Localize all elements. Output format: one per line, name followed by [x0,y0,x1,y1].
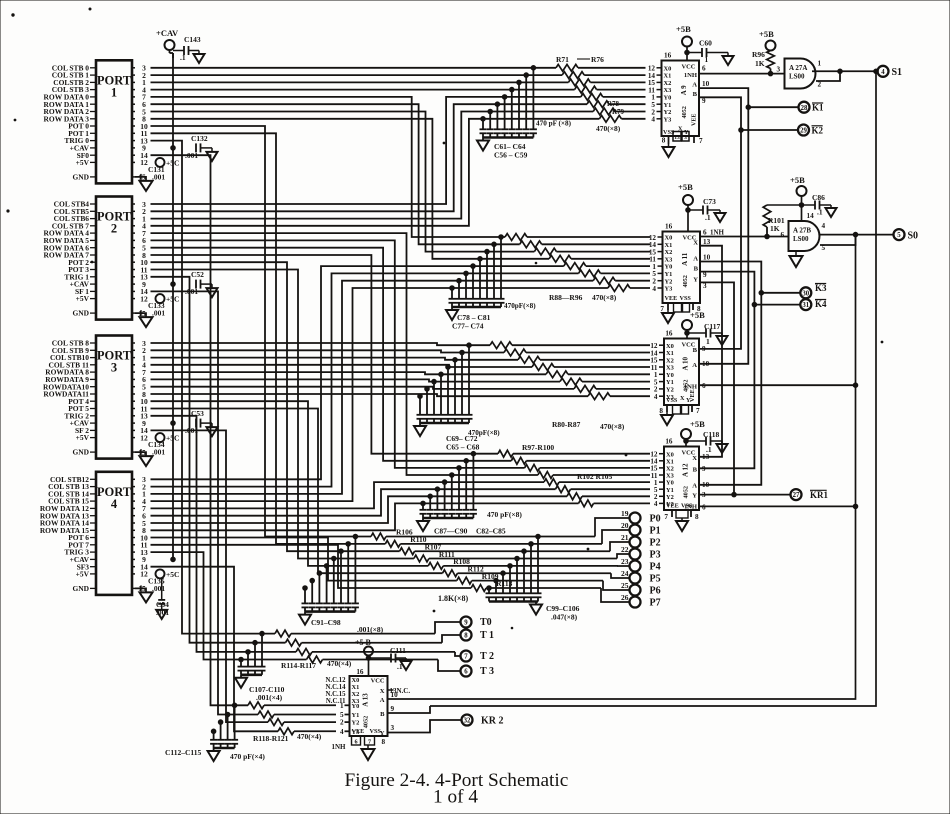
svg-text:KR 2: KR 2 [481,715,504,726]
svg-text:7: 7 [464,654,468,661]
svg-text:C91–C98: C91–C98 [311,618,341,627]
terminal S0 [894,229,919,241]
svg-text:3: 3 [111,361,117,375]
svg-text:Y0: Y0 [666,372,674,379]
svg-text:Y: Y [692,493,697,500]
svg-text:C53: C53 [191,409,204,418]
svg-text:VSS: VSS [680,295,692,302]
wire +CAV rail [171,53,176,562]
svg-text:X: X [680,395,685,402]
scan specks [7,8,883,629]
svg-text:C117: C117 [704,322,721,331]
svg-text:Y1: Y1 [664,102,672,109]
svg-text:1K: 1K [770,224,780,233]
resistor R96 1K [752,29,776,74]
svg-text:+5C: +5C [166,434,179,443]
svg-text:X1: X1 [664,73,672,80]
svg-text:24: 24 [621,569,629,578]
power +5B at A27B [790,175,807,221]
svg-text:6: 6 [702,504,706,512]
svg-text:K1: K1 [812,103,824,113]
svg-text:GND: GND [72,309,89,318]
svg-text:B: B [693,91,698,98]
svg-text:19: 19 [621,509,629,518]
svg-text:C77– C74: C77– C74 [452,322,484,331]
wire A13 B jog [388,706,431,713]
svg-text:3: 3 [684,135,687,141]
svg-text:4: 4 [340,728,344,736]
svg-text:X1: X1 [666,350,674,357]
capacitor C111 [369,646,412,671]
svg-text:4052: 4052 [682,486,689,498]
wire bus PORT2 COL STB risers to A9 Y inputs [151,97,600,226]
svg-text:16: 16 [665,223,673,231]
svg-text:12: 12 [140,158,148,167]
svg-text:R88—R96: R88—R96 [549,293,583,302]
svg-text:14: 14 [807,212,815,220]
terminal S1 [878,66,903,78]
svg-text:N.C.15: N.C.15 [325,691,346,698]
svg-text:7: 7 [664,513,668,521]
svg-text:.001: .001 [156,608,169,617]
power +5C at PORT 2 with capacitor C133 [148,294,179,318]
svg-text:.001: .001 [152,448,165,457]
capacitor C60 [687,39,734,66]
wire A11 A pin to K bus [699,262,764,485]
svg-text:1: 1 [706,337,710,346]
svg-text:+5C: +5C [166,570,179,579]
svg-text:7: 7 [368,739,371,746]
svg-text:1 of 4: 1 of 4 [433,787,478,808]
wire bus PORT3 COL STB to A10 X inputs [151,343,533,367]
svg-text:N.C.14: N.C.14 [325,684,346,691]
wire A27A feedback [816,71,840,81]
svg-text:C111: C111 [390,646,406,655]
svg-text:6: 6 [464,669,468,676]
resistors R97-R100 [498,443,650,478]
svg-text:X0: X0 [352,677,360,684]
wire bus POT lines to P outputs [151,126,472,588]
svg-text:+5C: +5C [166,158,179,167]
svg-text:12: 12 [140,294,148,303]
svg-text:470 pF(×4): 470 pF(×4) [230,752,265,761]
svg-text:21: 21 [621,533,629,542]
svg-text:7: 7 [696,407,700,415]
svg-text:Y: Y [693,276,698,283]
wire A27A output to S1 [812,69,878,74]
svg-text:Y1: Y1 [665,271,673,278]
svg-text:31: 31 [802,302,809,309]
ground at PORT 4 GND pin [135,585,153,602]
svg-text:9: 9 [464,620,468,627]
resistors R118-R121 470(x4) [248,702,350,743]
svg-text:P0: P0 [650,513,661,524]
svg-text:.1: .1 [706,445,712,454]
svg-text:B: B [693,347,698,354]
svg-text:+CAV: +CAV [156,28,179,38]
wire A9 A pin to K bus [699,88,751,364]
svg-text:X2: X2 [664,80,672,87]
wire bus PORT4 COL STB risers to A11 Y inputs [151,266,608,501]
wire P jogs to terminals [595,518,630,602]
wire A9 B pin to K bus [699,97,743,349]
capacitor C132 [185,134,218,161]
svg-text:9: 9 [391,705,395,713]
svg-text:LS00: LS00 [789,73,805,81]
connector PORT 1 [44,60,148,183]
svg-text:P2: P2 [650,537,661,548]
svg-text:10: 10 [702,80,710,88]
ground below A27B [790,251,803,267]
svg-text:R80-R87: R80-R87 [552,420,581,429]
svg-text:Y1: Y1 [666,379,674,386]
capacitor bank C78-C81 C77-C74 470pF(x8) [446,235,505,331]
ground at PORT 3 GND pin [135,449,153,466]
svg-text:32: 32 [464,718,471,725]
A10 bottom pins 8 7 and ground [659,405,700,425]
svg-text:X3: X3 [665,256,673,263]
op-amp IC multiplexer A10 4052 [650,330,709,406]
svg-text:7: 7 [660,305,664,313]
svg-text:470(×8): 470(×8) [596,124,621,133]
svg-text:VCC: VCC [682,64,696,71]
svg-text:VEE: VEE [666,503,679,510]
svg-text:X3: X3 [666,473,674,480]
svg-text:4052: 4052 [363,716,370,728]
svg-text:30: 30 [802,290,809,297]
svg-text:LS00: LS00 [793,235,809,243]
svg-text:16: 16 [356,668,364,676]
svg-text:A: A [692,483,697,490]
resistors R106-R113 1.8K(x8) [371,528,618,603]
svg-text:P5: P5 [650,573,661,584]
svg-text:S1: S1 [892,67,903,78]
svg-text:P4: P4 [650,561,661,572]
wire S1 vertical to A13 B [430,69,878,706]
svg-text:5: 5 [897,232,901,239]
wire T jogs [435,622,461,671]
svg-text:4052: 4052 [682,275,689,287]
svg-text:470(×8): 470(×8) [592,293,617,302]
terminals T0-T3 [461,617,495,678]
svg-text:.047(×8): .047(×8) [551,613,578,622]
svg-text:20: 20 [621,521,629,530]
svg-text:.001(×4): .001(×4) [256,693,283,702]
svg-text:12: 12 [140,570,148,579]
svg-text:Y3: Y3 [664,116,672,123]
svg-text:6: 6 [781,231,785,239]
wire bus TRIG lines to T rows [151,141,307,660]
svg-text:C86: C86 [812,193,825,202]
svg-text:4052: 4052 [681,106,688,118]
ground at PORT 2 GND pin [135,310,153,327]
svg-text:N.C.11: N.C.11 [326,698,346,705]
svg-text:.1: .1 [397,662,403,671]
svg-text:470(×4): 470(×4) [297,732,322,741]
wire bus SF lines to A13 rows [151,155,279,731]
svg-text:10: 10 [391,691,399,699]
resistor R101 1K [763,205,801,239]
svg-text:C112–C115: C112–C115 [165,748,202,757]
svg-text:6: 6 [702,65,706,73]
svg-text:1: 1 [705,55,709,64]
svg-text:.1: .1 [705,213,711,222]
svg-text:Y2: Y2 [666,387,674,394]
svg-text:C118: C118 [703,430,720,439]
svg-text:A 27A: A 27A [789,64,807,72]
power +5B at A13 [355,638,373,676]
svg-text:C87—C90: C87—C90 [434,527,468,536]
wire A11 INH to A27B [700,236,789,238]
svg-text:C56 – C59: C56 – C59 [494,151,528,160]
svg-text:Y2: Y2 [352,720,360,727]
svg-text:T0: T0 [480,617,492,628]
svg-text:16: 16 [665,330,673,338]
svg-text:X1: X1 [666,458,674,465]
svg-text:P1: P1 [650,525,661,536]
wire bus PORT2 ROW DATA drops to A12 X inputs [151,233,538,475]
svg-text:C73: C73 [703,197,716,206]
wire A11 B pin to K bus [699,272,757,469]
svg-text:A: A [692,362,697,369]
svg-text:8: 8 [659,407,663,415]
svg-text:T 2: T 2 [480,651,494,662]
svg-text:3: 3 [391,724,395,732]
svg-text:13: 13 [674,135,680,141]
svg-text:Y2: Y2 [664,109,672,116]
svg-text:+5 B: +5 B [355,638,372,647]
svg-text:VSS: VSS [370,728,382,735]
svg-text:470 pF (×8): 470 pF (×8) [536,120,572,128]
op-amp IC multiplexer A11 4052 [649,223,711,304]
svg-text:1: 1 [818,60,822,68]
svg-text:X3: X3 [666,365,674,372]
svg-text:12: 12 [140,433,148,442]
logic gate A27B LS00 [781,212,826,252]
svg-text:B: B [694,266,699,273]
svg-text:C65 – C68: C65 – C68 [446,443,480,452]
svg-text:R96: R96 [752,50,765,59]
svg-text:.001: .001 [152,584,165,593]
svg-text:1: 1 [111,85,117,99]
svg-text:A 12: A 12 [681,463,689,477]
svg-text:1K: 1K [755,59,765,68]
svg-text:A 9: A 9 [680,85,688,95]
wire A12 INH row [699,505,856,507]
svg-text:2: 2 [111,222,117,236]
capacitor C73 [688,197,726,222]
svg-text:N.C.12: N.C.12 [325,677,346,684]
capacitor C53 [185,409,218,436]
svg-text:4: 4 [652,285,656,293]
svg-text:P7: P7 [650,597,661,608]
terminals P0-P7 [621,509,661,608]
svg-text:Y0: Y0 [352,703,360,710]
svg-text:470pF(×8): 470pF(×8) [504,302,536,310]
svg-text:R78: R78 [607,100,620,108]
svg-text:26: 26 [621,593,629,602]
svg-text:4: 4 [822,222,826,230]
svg-text:A: A [692,82,697,89]
wire bus PORT1 ROW DATA drops to A11 X inputs [151,97,550,259]
svg-text:P6: P6 [650,585,661,596]
svg-text:Y1: Y1 [666,487,674,494]
svg-text:3: 3 [777,66,781,74]
capacitor C86 [802,193,837,217]
svg-text:470(×4): 470(×4) [327,659,352,668]
svg-text:X0: X0 [666,451,674,458]
svg-text:23: 23 [621,557,629,566]
terminal K2 [741,125,824,136]
svg-text:+5B: +5B [690,310,705,320]
power +5C at PORT 4 with capacitor C135 [148,569,179,593]
wire A12 Y to KR1 [699,494,791,496]
svg-text:+5V: +5V [76,570,90,579]
terminal KR1 [791,489,829,500]
svg-text:8: 8 [382,738,386,746]
svg-text:Y3: Y3 [665,286,673,293]
svg-text:X0: X0 [664,65,672,72]
svg-text:R114-R117: R114-R117 [281,661,316,670]
svg-text:R118-R121: R118-R121 [253,734,289,743]
svg-text:X2: X2 [665,249,673,256]
svg-text:1NH: 1NH [332,743,347,751]
svg-text:16: 16 [664,52,672,60]
svg-text:4: 4 [651,116,655,124]
wire A13 Y to KR2 [388,720,462,733]
svg-text:+5C: +5C [166,295,179,304]
svg-text:KR1: KR1 [810,490,829,500]
svg-text:27: 27 [793,492,800,499]
wire A27B feedback [820,235,856,245]
svg-text:B: B [380,711,385,718]
power +5B at A12 [681,419,705,447]
svg-text:C82–C85: C82–C85 [476,527,506,536]
svg-text:P3: P3 [650,549,661,560]
svg-text:K4: K4 [815,299,827,309]
capacitor bank C69-C72 C65-C68 470pF(x8) [414,343,480,452]
op-amp IC multiplexer A12 4052 [650,438,709,512]
svg-text:470(×8): 470(×8) [600,422,625,431]
A11 bottom pins 7 8 and ground [660,303,701,323]
svg-text:K3: K3 [815,283,827,293]
capacitor bank C87-C90 C82-C85 470pF(x8) [417,451,522,535]
svg-text:K2: K2 [812,125,824,135]
svg-text:X: X [380,688,385,695]
svg-text:X0: X0 [666,343,674,350]
wire bus PORT4 ROW DATA risers to A12 Y inputs [151,482,579,530]
svg-text:X2: X2 [352,691,360,698]
svg-text:Y2: Y2 [665,278,673,285]
svg-text:6: 6 [703,229,707,237]
svg-text:A 13: A 13 [362,693,370,707]
svg-text:+5B: +5B [676,24,691,34]
svg-text:Y0: Y0 [665,264,673,271]
resistors R88-R96 470(x8) [504,234,650,310]
svg-text:.001(×8): .001(×8) [357,625,384,634]
svg-text:X2: X2 [666,357,674,364]
svg-text:R76: R76 [591,55,604,64]
svg-text:+5B: +5B [759,29,774,39]
svg-text:8: 8 [695,513,699,521]
svg-text:+5V: +5V [76,294,90,303]
svg-text:16: 16 [665,438,673,446]
op-amp IC multiplexer A9 4052 [648,52,710,137]
wire A11 Y to KR1 net [700,282,736,497]
svg-text:X1: X1 [665,242,673,249]
svg-text:2: 2 [340,719,344,727]
svg-text:28: 28 [801,105,808,112]
svg-text:X: X [692,455,697,462]
wire A11 X to A12 X [699,246,722,457]
svg-text:Y1: Y1 [352,712,360,719]
svg-text:470 pF(×8): 470 pF(×8) [487,510,522,519]
svg-text:C132: C132 [191,134,208,143]
logic gate A27A LS00 [777,59,822,89]
svg-text:X: X [693,240,698,247]
svg-text:29: 29 [800,128,807,135]
svg-text:GND: GND [72,173,89,182]
svg-text:1NH: 1NH [710,229,725,237]
resistors R71-R76 R78 R79 470(x8) [536,55,646,133]
svg-text:1.8K(×8): 1.8K(×8) [438,594,468,603]
svg-text:25: 25 [621,581,629,590]
svg-text:8: 8 [662,137,666,145]
svg-text:X0: X0 [665,235,673,242]
svg-text:X3: X3 [664,87,672,94]
svg-text:1NH: 1NH [684,72,698,79]
svg-text:4: 4 [654,393,658,401]
svg-text:+5B: +5B [678,182,693,192]
op-amp IC multiplexer A13 4052 [325,668,410,737]
svg-text:Y0: Y0 [664,95,672,102]
svg-text:VEE: VEE [352,728,365,735]
connector PORT 2 [44,197,148,320]
wire S0 vertical to A13 A [388,235,858,699]
terminal K3 [761,283,827,298]
caption figure title [345,770,569,808]
capacitor C143 [173,35,205,63]
svg-text:VEE: VEE [665,295,678,302]
svg-text:A 10: A 10 [682,357,690,371]
svg-text:+5V: +5V [76,158,90,167]
A9 bottom pins 8 13 3 7 and ground [662,132,703,158]
power +CAV [156,28,179,58]
wire A27B output to S0 [820,232,894,237]
svg-text:8: 8 [464,633,468,640]
capacitor bank C112-C115 470pF(x4) [165,703,265,761]
capacitor C117 [687,322,728,346]
svg-text:+5B: +5B [690,419,705,429]
svg-text:Y0: Y0 [666,480,674,487]
svg-text:T 3: T 3 [480,666,494,677]
svg-text:VEE: VEE [692,114,698,126]
resistors R114-R117 470(x4) [275,630,455,670]
svg-text:VSS: VSS [666,397,678,404]
resistors R80-R87 470(x8) [468,342,650,437]
svg-text:R79: R79 [612,108,625,116]
A12 bottom pins 7 8 and ground [664,510,699,531]
svg-text:A 27B: A 27B [793,227,811,235]
svg-text:X1: X1 [352,684,360,691]
capacitor C52 [185,270,218,297]
svg-text:B: B [693,467,698,474]
capacitor bank C91-C98 .001(x8) [299,534,384,634]
power +5C at PORT 3 with capacitor C134 [148,433,179,457]
svg-text:4: 4 [654,500,658,508]
wire bus PORT1 COL STB to A9 X inputs [151,68,575,90]
capacitor bank C61-C64 C56-C59 470pF(x8) [477,66,537,160]
